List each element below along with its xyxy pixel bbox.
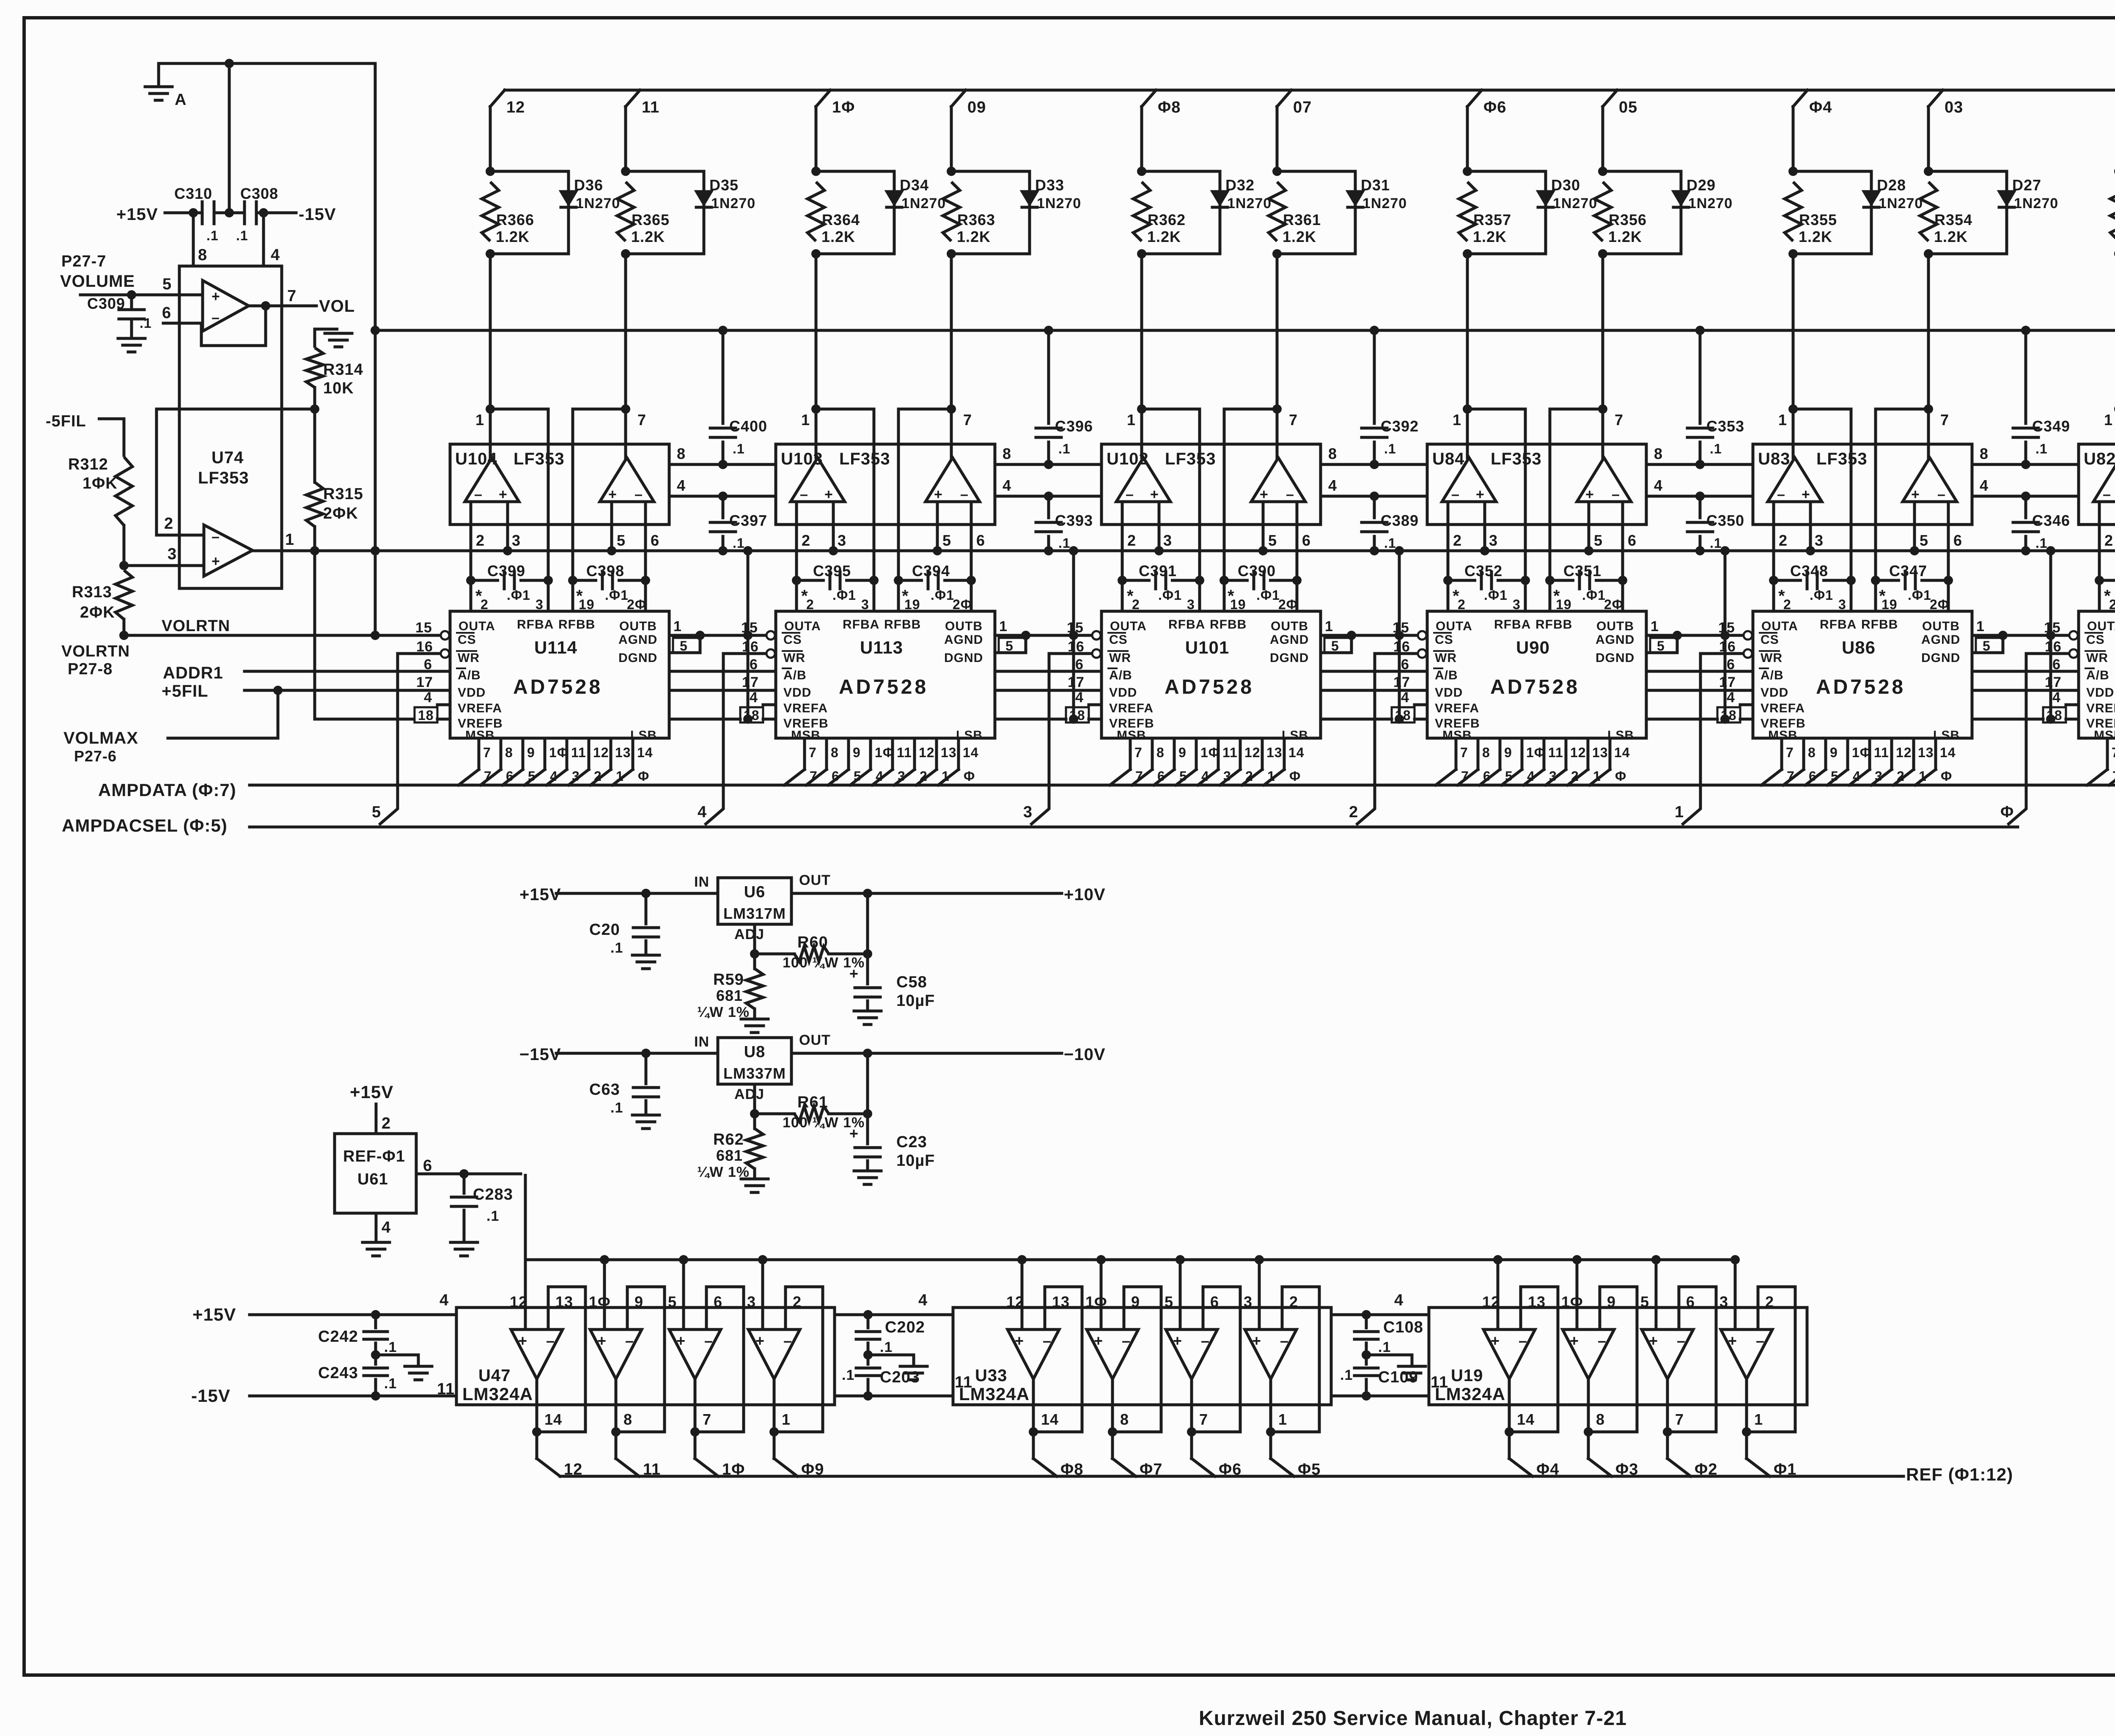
U102 B input glyphs	[1260, 486, 1294, 503]
svg-text:AD7528: AD7528	[1816, 676, 1906, 698]
svg-text:4: 4	[382, 1219, 391, 1236]
svg-text:D30: D30	[1551, 176, 1580, 194]
capacitor C399 .01 feedback box	[471, 562, 548, 612]
svg-text:2: 2	[1779, 532, 1788, 549]
wire U33D output diagonal to REF bus	[1271, 1459, 1294, 1476]
op-amp U47C triangle	[669, 1329, 721, 1379]
svg-text:4: 4	[1727, 689, 1735, 706]
wire U102 pin4 -15V rail	[1321, 477, 1427, 496]
op-amp U104 A triangle	[465, 458, 519, 502]
op-amp U102 A triangle	[1116, 458, 1170, 502]
svg-text:17: 17	[1393, 674, 1410, 690]
wire U114 WR select route	[379, 654, 441, 825]
wire U83 pin2 inverting input	[1774, 502, 1788, 580]
U33B top pin numbers 1Φ 9	[1085, 1293, 1140, 1310]
node U47D output junction	[769, 1427, 779, 1437]
svg-text:VOLRTN: VOLRTN	[61, 643, 130, 660]
wire channel Φ8 to op-amp	[1140, 254, 1143, 409]
node AGND riser CS junction	[1720, 631, 1730, 640]
node C390 corners	[1220, 576, 1302, 585]
wire ADDR1 bus segment to U90	[1321, 670, 1427, 673]
svg-text:2: 2	[382, 1115, 391, 1132]
svg-text:VDD: VDD	[2086, 686, 2114, 700]
wire U86 AGND pin 1 stub	[1972, 618, 2003, 635]
svg-text:13: 13	[615, 745, 631, 760]
svg-text:5: 5	[1005, 638, 1014, 654]
svg-text:REF (Φ1:12): REF (Φ1:12)	[1906, 1464, 2013, 1484]
ground for U61	[363, 1241, 390, 1244]
svg-text:.1: .1	[140, 316, 152, 331]
capacitor C23 10uF	[849, 1114, 935, 1171]
wire U33B output diagonal to REF bus	[1112, 1459, 1136, 1476]
svg-text:13: 13	[941, 745, 957, 760]
svg-text:+: +	[1728, 1332, 1737, 1349]
wire U61 pin 4 ground	[376, 1213, 391, 1242]
node C346 bottom junction	[2021, 546, 2030, 555]
node C23 junction	[863, 1109, 872, 1118]
svg-text:1N270: 1N270	[1227, 195, 1272, 212]
svg-text:9: 9	[1504, 745, 1512, 760]
svg-text:VREFA: VREFA	[1761, 701, 1805, 715]
wire U113 VREFA stub	[763, 703, 776, 706]
resistor R61 100	[755, 1093, 868, 1131]
U33A top pin numbers 12 13	[1006, 1293, 1070, 1310]
svg-text:8: 8	[1596, 1411, 1605, 1428]
svg-text:–: –	[634, 486, 643, 503]
svg-text:1N270: 1N270	[2014, 195, 2058, 212]
svg-text:Kurzweil 250 Service Manual, C: Kurzweil 250 Service Manual, Chapter 7-2…	[1199, 1707, 1627, 1730]
wire U74B output pin1 main rail	[253, 531, 2115, 551]
svg-text:2ΦK: 2ΦK	[80, 604, 115, 621]
svg-text:5: 5	[1920, 532, 1928, 549]
svg-text:Φ6: Φ6	[1483, 99, 1506, 116]
wire R314 to ground hook	[315, 329, 338, 348]
op-amp U33B triangle	[1087, 1329, 1138, 1379]
wire U47D + input riser	[761, 1260, 764, 1329]
svg-text:1.2K: 1.2K	[1473, 228, 1507, 245]
capacitor C395 .01 feedback box	[797, 562, 874, 612]
node AGND riser top	[2046, 546, 2055, 555]
wire U33A output diagonal to REF bus	[1033, 1459, 1057, 1476]
node AGND riser CS junction	[1395, 631, 1404, 640]
wire U103 A output jog to RFBA	[816, 409, 874, 580]
node C400 top junction	[718, 326, 728, 335]
svg-text:14: 14	[963, 745, 979, 760]
node U33D output junction	[1266, 1427, 1275, 1437]
svg-text:.1: .1	[1710, 441, 1722, 456]
wire U101 data pin 5	[1220, 738, 1261, 785]
wire +5FIL bus segment to U101	[995, 689, 1101, 692]
svg-text:C390: C390	[1238, 562, 1276, 580]
wire channel 1Φ to op-amp	[815, 254, 818, 409]
node C346 top junction	[2021, 492, 2030, 501]
node riser junction	[600, 1255, 609, 1264]
node riser junction	[1017, 1255, 1027, 1264]
node U19C output junction	[1663, 1427, 1672, 1437]
svg-text:2: 2	[1453, 532, 1462, 549]
wire ADDR1 bus segment to U101	[995, 670, 1101, 673]
wire channel Φ4 to op-amp	[1792, 254, 1795, 409]
svg-text:+: +	[1476, 486, 1485, 503]
svg-text:.Φ1: .Φ1	[1810, 588, 1833, 603]
svg-text:1Φ: 1Φ	[589, 1293, 611, 1310]
svg-text:A/B: A/B	[1109, 668, 1132, 682]
svg-text:ADJ: ADJ	[734, 1086, 764, 1102]
wire U90 AGND pin 1 stub	[1646, 618, 1677, 635]
capacitor C390 .01 feedback box	[1224, 562, 1298, 612]
wire U47D feedback loop	[774, 1287, 823, 1432]
node R315 output rail junction	[310, 546, 319, 555]
svg-text:C393: C393	[1055, 512, 1093, 529]
wire U86 data pin 0	[1761, 738, 1795, 785]
svg-text:LF353: LF353	[514, 450, 565, 468]
svg-text:5: 5	[1268, 532, 1277, 549]
resistor R353 1.2K	[2110, 182, 2115, 245]
op-amp U33C triangle	[1166, 1329, 1217, 1379]
svg-text:–: –	[1598, 1332, 1607, 1349]
wire diode branch D36	[490, 171, 569, 254]
wire U47C output	[694, 1379, 697, 1459]
wire pin4 line segment at C202	[835, 1313, 953, 1316]
resistor R361 1.2K	[1269, 182, 1321, 245]
node U102 B output junction	[1272, 404, 1282, 414]
label U84 LF353	[1432, 450, 1542, 468]
svg-text:17: 17	[742, 674, 759, 690]
node C392 bottom junction	[1370, 460, 1379, 469]
wire channel 09 corner flag	[951, 90, 986, 116]
node C396 top junction	[1044, 326, 1053, 335]
node pin4 supply junction	[259, 208, 268, 217]
capacitor C350 .1	[1687, 496, 1744, 551]
svg-text:8: 8	[505, 745, 513, 760]
U101 WR pin 16 bubble	[1068, 639, 1101, 658]
wire R315 bottom to output rail	[313, 527, 316, 551]
wire +5FIL bus segment to U86	[1646, 689, 1753, 692]
svg-text:14: 14	[1614, 745, 1630, 760]
svg-text:12: 12	[919, 745, 935, 760]
svg-text:C348: C348	[1790, 562, 1828, 580]
wire U104 pin2 inverting input	[471, 502, 485, 580]
wire channel 05 drop	[1601, 107, 1604, 171]
op-amp U82 A triangle	[2093, 458, 2115, 502]
capacitor C203 .1	[842, 1355, 972, 1396]
node riser junction	[679, 1255, 688, 1264]
U19D top pin numbers 3 2	[1719, 1293, 1774, 1310]
svg-text:OUTA: OUTA	[1761, 619, 1798, 633]
svg-text:.1: .1	[733, 441, 745, 456]
svg-text:+: +	[1173, 1332, 1182, 1349]
svg-text:1N270: 1N270	[901, 195, 946, 212]
svg-text:+: +	[499, 486, 508, 503]
node C349 bottom junction	[2021, 460, 2030, 469]
wire -15V line to U47	[250, 1395, 456, 1398]
U81 left pin names	[2085, 633, 2115, 742]
node C243 junction	[371, 1391, 380, 1401]
wire U19C + input riser	[1655, 1260, 1658, 1329]
wire U101 data pin 6	[1242, 738, 1283, 785]
svg-text:–: –	[1122, 1332, 1131, 1349]
svg-text:LM337M: LM337M	[723, 1065, 786, 1082]
svg-text:D34: D34	[900, 176, 929, 194]
wire channel 11 to op-amp	[624, 254, 627, 409]
wire U102 pin5 to main rail	[1263, 502, 1277, 551]
net label VOLMAX P27-6	[63, 729, 138, 765]
U101 left pin names	[1108, 633, 1154, 742]
node C309 junction	[127, 290, 136, 299]
svg-text:1N270: 1N270	[1553, 195, 1597, 212]
wire channel 09 to op-amp	[950, 254, 953, 409]
svg-text:A/B: A/B	[458, 668, 481, 682]
ground for C23	[854, 1170, 881, 1173]
wire channel 07 drop	[1276, 107, 1279, 171]
wire U102 pin3 to main rail	[1159, 502, 1172, 551]
ground for R59	[741, 1018, 768, 1021]
wire pin4 line segment at C108	[1331, 1313, 1429, 1316]
svg-text:3: 3	[1815, 532, 1824, 549]
svg-text:11: 11	[897, 745, 912, 760]
wire U86 data pin 1	[1783, 738, 1817, 785]
svg-text:.1: .1	[880, 1339, 893, 1355]
capacitor C347 .01 feedback box	[1876, 562, 1949, 612]
wire U113 data pin 0	[784, 738, 818, 785]
wire U19B feedback loop	[1588, 1287, 1637, 1432]
svg-text:8: 8	[1156, 745, 1165, 760]
svg-text:9: 9	[1178, 745, 1187, 760]
svg-text:WR: WR	[783, 651, 805, 665]
U102 A input glyphs	[1126, 486, 1159, 503]
svg-text:–: –	[1286, 486, 1294, 503]
node C108/C109 junction	[1362, 1350, 1371, 1360]
wire U114 AGND pin 1 stub	[669, 618, 700, 635]
wire channel 12 drop	[489, 107, 492, 171]
svg-text:11: 11	[1548, 745, 1563, 760]
wire U19D output diagonal to REF bus	[1747, 1459, 1770, 1476]
node AGND riser top	[743, 546, 753, 555]
node riser junction	[758, 1255, 767, 1264]
wire U61 pin 6 output	[416, 1157, 521, 1175]
svg-text:C58: C58	[896, 973, 927, 991]
wire U90 data pin 6	[1568, 738, 1608, 785]
capacitor C202 .1	[856, 1315, 925, 1355]
op-amp U84 A triangle	[1442, 458, 1496, 502]
node channel 05 top junction	[1598, 167, 1607, 176]
U19B input glyphs	[1570, 1332, 1607, 1349]
capacitor C396 .1	[1036, 330, 1093, 464]
svg-text:+: +	[849, 1125, 859, 1142]
wire U101 VREFA stub	[1089, 703, 1101, 706]
wire U81 VREFB stub	[2066, 718, 2079, 721]
node R314/R315 junction	[310, 404, 319, 414]
svg-text:AGND: AGND	[1596, 633, 1634, 647]
svg-text:C398: C398	[586, 562, 624, 580]
svg-text:Φ: Φ	[964, 769, 975, 784]
wire U19A + input riser	[1497, 1260, 1500, 1329]
U90 top pin names	[1436, 618, 1634, 633]
wire U19C output	[1666, 1379, 1669, 1459]
svg-text:5: 5	[1983, 638, 1991, 654]
node U84 A output junction	[1463, 404, 1472, 414]
wire R313 bottom	[123, 619, 126, 635]
svg-text:6: 6	[424, 656, 432, 673]
capacitor C352 .01 feedback box	[1448, 562, 1525, 612]
svg-text:OUT: OUT	[799, 872, 831, 888]
svg-text:D36: D36	[574, 176, 603, 194]
svg-text:14: 14	[637, 745, 653, 760]
svg-text:P27-6: P27-6	[74, 747, 117, 765]
wire U33A output	[1032, 1379, 1035, 1459]
wire channel 1Φ drop	[815, 107, 818, 171]
svg-text:4: 4	[424, 689, 432, 706]
capacitor C389 .1	[1362, 496, 1419, 551]
svg-text:R60: R60	[797, 934, 828, 951]
node AGND riser CS junction	[743, 631, 753, 640]
svg-text:10µF: 10µF	[896, 992, 935, 1010]
svg-text:1: 1	[999, 618, 1008, 635]
node ground-A rail junction	[371, 326, 380, 335]
U103 B input glyphs	[934, 486, 969, 503]
diode D33 1N270	[1022, 176, 1081, 212]
label U104 LF353	[455, 450, 565, 468]
node channel 09 bottom junction	[947, 249, 956, 258]
svg-text:AD7528: AD7528	[839, 676, 928, 698]
wire VREFB chain segment to U81	[1972, 718, 2043, 721]
svg-text:DGND: DGND	[618, 651, 657, 665]
node C397 top junction	[718, 492, 728, 501]
svg-text:–: –	[1201, 1332, 1210, 1349]
wire U83 B output jog to RFBB	[1876, 409, 1928, 580]
wire U74 pin 6 stub	[162, 304, 203, 323]
node U86 DGND junction	[1998, 631, 2008, 640]
svg-text:1N270: 1N270	[1362, 195, 1407, 212]
svg-text:2: 2	[802, 532, 810, 549]
U19C top pin numbers 5 6	[1640, 1293, 1695, 1310]
svg-text:AGND: AGND	[1921, 633, 1960, 647]
svg-text:.1: .1	[236, 228, 248, 243]
svg-text:5: 5	[942, 532, 951, 549]
svg-text:WR: WR	[1761, 651, 1783, 665]
node AGND riser CS junction	[2046, 631, 2055, 640]
wire U102 B output jog to RFBB	[1224, 409, 1277, 580]
wire U90 data pin 4	[1524, 738, 1563, 785]
wire U102 B output to triangle	[1277, 409, 1298, 458]
resistor R315 20K	[306, 482, 363, 527]
diode D29 1N270	[1673, 176, 1733, 212]
svg-text:C203: C203	[880, 1368, 920, 1386]
wire U90 data pin 7	[1590, 738, 1630, 785]
svg-text:–: –	[1777, 486, 1785, 503]
wire U104 B output jog to RFBB	[573, 409, 626, 580]
U104 A input glyphs	[474, 486, 508, 503]
wire diode branch D29	[1603, 171, 1681, 254]
svg-text:5: 5	[1657, 638, 1665, 654]
svg-text:1N270: 1N270	[1037, 195, 1081, 212]
svg-text:1: 1	[1127, 411, 1136, 429]
node channel 07 top junction	[1272, 167, 1282, 176]
wire U19B + input riser	[1576, 1260, 1579, 1329]
node C203 junction	[863, 1391, 873, 1401]
wire U90 data pin 0	[1436, 738, 1469, 785]
op-amp U19C triangle	[1642, 1329, 1693, 1379]
svg-text:3: 3	[1023, 803, 1033, 821]
svg-text:1.2K: 1.2K	[1799, 228, 1832, 245]
svg-text:+: +	[849, 965, 859, 982]
svg-text:9: 9	[1830, 745, 1838, 760]
wire U90 WR select route	[1356, 654, 1418, 825]
svg-text:Φ: Φ	[638, 769, 649, 784]
op-amp U19D triangle	[1721, 1329, 1772, 1379]
node channel 1Φ bottom junction	[811, 249, 821, 258]
svg-text:D27: D27	[2012, 176, 2041, 194]
diode D35 1N270	[696, 176, 755, 212]
svg-text:.1: .1	[384, 1376, 397, 1392]
svg-text:7: 7	[1675, 1411, 1684, 1428]
svg-text:5: 5	[680, 638, 688, 654]
wire U101 data pin 1	[1132, 738, 1165, 785]
svg-text:IN: IN	[694, 1034, 709, 1050]
node U103 B output junction	[947, 404, 956, 414]
U86 CS pin 15 bubble	[1718, 620, 1752, 640]
node C389 top junction	[1370, 492, 1379, 501]
U101 right pin names	[1270, 633, 1309, 742]
svg-text:LM317M: LM317M	[723, 905, 786, 922]
svg-text:2: 2	[476, 532, 485, 549]
wire U114 data pin 4	[547, 738, 586, 785]
svg-text:VDD: VDD	[1761, 686, 1788, 700]
svg-text:4: 4	[698, 803, 707, 821]
U90 WR pin 16 bubble	[1393, 639, 1426, 658]
svg-text:+: +	[608, 486, 617, 503]
wire diode branch D32	[1142, 171, 1220, 254]
svg-text:–: –	[960, 486, 969, 503]
svg-text:.1: .1	[1384, 441, 1396, 456]
wire channel 11 drop	[624, 107, 627, 171]
node riser junction	[1255, 1255, 1264, 1264]
wire U81 data pin 1	[2109, 738, 2115, 785]
svg-text:05: 05	[1619, 99, 1637, 116]
node channel Φ6 top junction	[1463, 167, 1472, 176]
svg-text:C352: C352	[1464, 562, 1502, 580]
U47B input glyphs	[597, 1332, 634, 1349]
svg-text:AD7528: AD7528	[513, 676, 603, 698]
wire diode branch D33	[951, 171, 1030, 254]
resistor R364 1.2K	[808, 182, 860, 245]
svg-text:7: 7	[637, 411, 646, 429]
svg-text:OUTB: OUTB	[945, 619, 983, 633]
node U33A output junction	[1029, 1427, 1038, 1437]
node channel Φ2 bottom junction	[2114, 249, 2115, 258]
wire channel 07 corner flag	[1277, 90, 1312, 116]
wire U74A feedback loop	[201, 306, 266, 346]
wire channel Φ8 corner flag	[1142, 90, 1181, 116]
resistor R312 10K	[68, 456, 132, 525]
wire U113 data pin 3	[850, 738, 894, 785]
svg-text:A/B: A/B	[783, 668, 807, 682]
wire U47A feedback loop	[537, 1287, 585, 1432]
wire VOLUME input to U74 pin 5	[80, 275, 203, 295]
resistor R355 1.2K	[1785, 182, 1837, 245]
svg-text:U101: U101	[1185, 637, 1229, 657]
svg-text:–: –	[211, 310, 220, 326]
wire U104 pin3 to main rail	[508, 502, 521, 551]
node ground-A main-rail junction	[371, 546, 380, 555]
wire U102 A output to triangle	[1127, 409, 1142, 458]
node C397 bottom junction	[718, 546, 728, 555]
op-amp U33 LM324A box	[953, 1307, 1331, 1405]
svg-text:2: 2	[1765, 1293, 1774, 1310]
svg-text:U19: U19	[1451, 1366, 1483, 1385]
op-amp U103 A triangle	[791, 458, 845, 502]
svg-text:1: 1	[1675, 803, 1684, 821]
